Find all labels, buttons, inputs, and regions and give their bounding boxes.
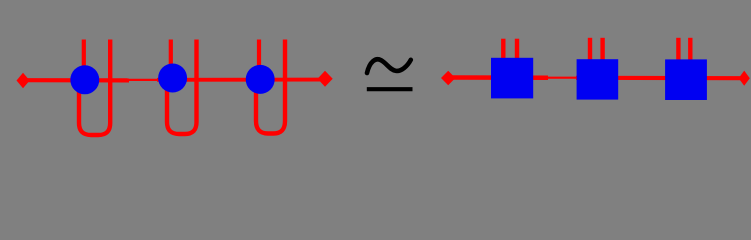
node: blue box 1 <box>491 58 533 99</box>
wire: box 1 left top leg <box>501 39 505 60</box>
wire: left diagram, thin connector to dot 2 <box>127 79 160 81</box>
wire: unit 2 top leg <box>169 40 173 73</box>
symbol: simeq (tilde) <box>367 59 411 73</box>
node: left diamond terminal of right diagram <box>441 71 455 86</box>
node: blue box 3 <box>665 59 707 100</box>
wire: right diagram, diamond to past box 1 (thick) <box>452 75 548 80</box>
node: blue dot 3 <box>246 65 275 94</box>
wire: box 3 right top leg <box>688 38 692 61</box>
wire: left diagram, diamond to past dot 1 (thick) <box>27 78 129 82</box>
wire: right diagram, thin connector to box 2 <box>545 77 579 79</box>
wire: unit 3 top leg <box>257 40 261 73</box>
node: blue box 2 <box>577 59 619 99</box>
wire: unit 3 cup (bent leg) <box>256 40 285 134</box>
node: blue dot 1 <box>70 65 99 94</box>
node: left diamond terminal of left diagram <box>17 73 30 88</box>
wire: unit 1 top leg <box>82 40 86 73</box>
wire: box 1 right top leg <box>515 39 519 60</box>
wire: left diagram, dot 2 to right diamond <box>157 78 320 82</box>
wire: box 2 right top leg <box>600 38 604 61</box>
wire: unit 2 cup (bent leg) <box>167 40 197 135</box>
node: right diamond terminal of left diagram <box>318 71 333 87</box>
node: blue dot 2 <box>158 64 187 93</box>
wire: box 3 left top leg <box>676 38 680 61</box>
symbol: simeq (bar) <box>367 87 413 91</box>
wire: box 2 left top leg <box>588 38 592 61</box>
node: right diamond terminal of right diagram <box>739 71 750 86</box>
wire: unit 1 cup (bent leg) <box>79 40 110 136</box>
wire: right diagram, box 2 to right diamond <box>576 76 742 81</box>
